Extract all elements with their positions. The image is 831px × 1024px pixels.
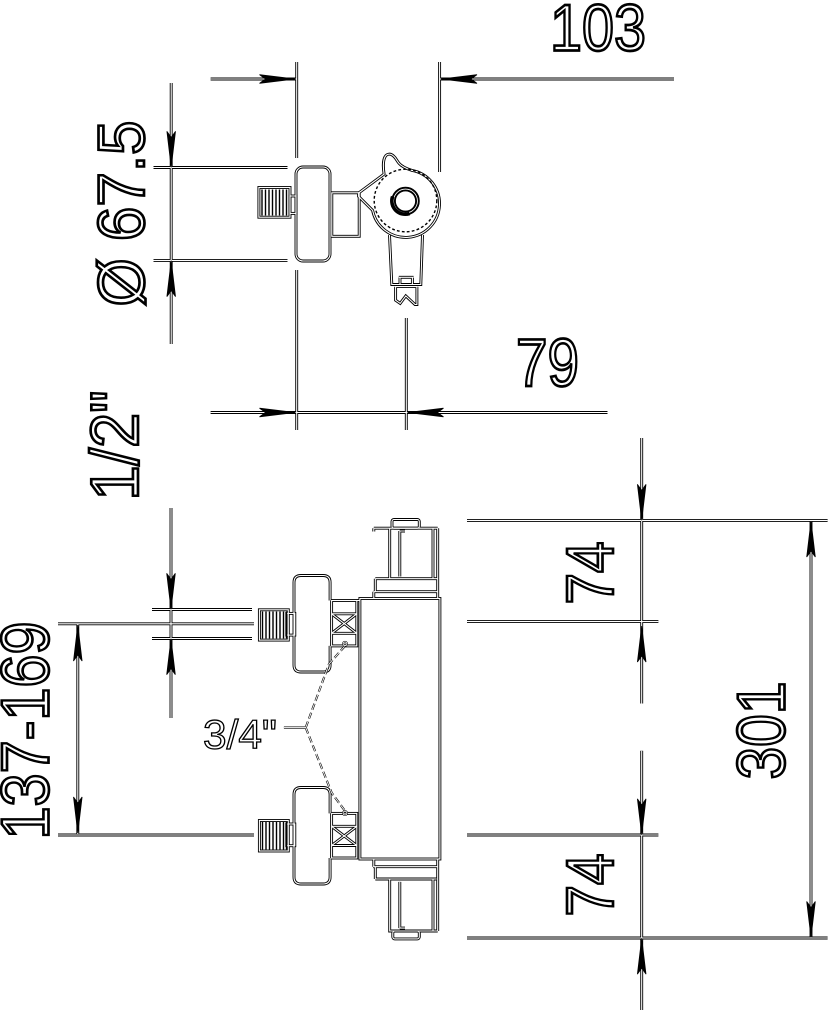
svg-text:103: 103 bbox=[550, 0, 646, 65]
svg-text:79: 79 bbox=[516, 325, 579, 401]
svg-text:301: 301 bbox=[724, 682, 800, 780]
svg-text:74: 74 bbox=[553, 542, 628, 605]
svg-text:3/4": 3/4" bbox=[203, 712, 277, 758]
svg-text:1/2": 1/2" bbox=[77, 391, 153, 501]
svg-text:137-169: 137-169 bbox=[0, 622, 64, 840]
svg-text:Ø 67.5: Ø 67.5 bbox=[84, 121, 158, 307]
svg-text:74: 74 bbox=[553, 854, 628, 917]
